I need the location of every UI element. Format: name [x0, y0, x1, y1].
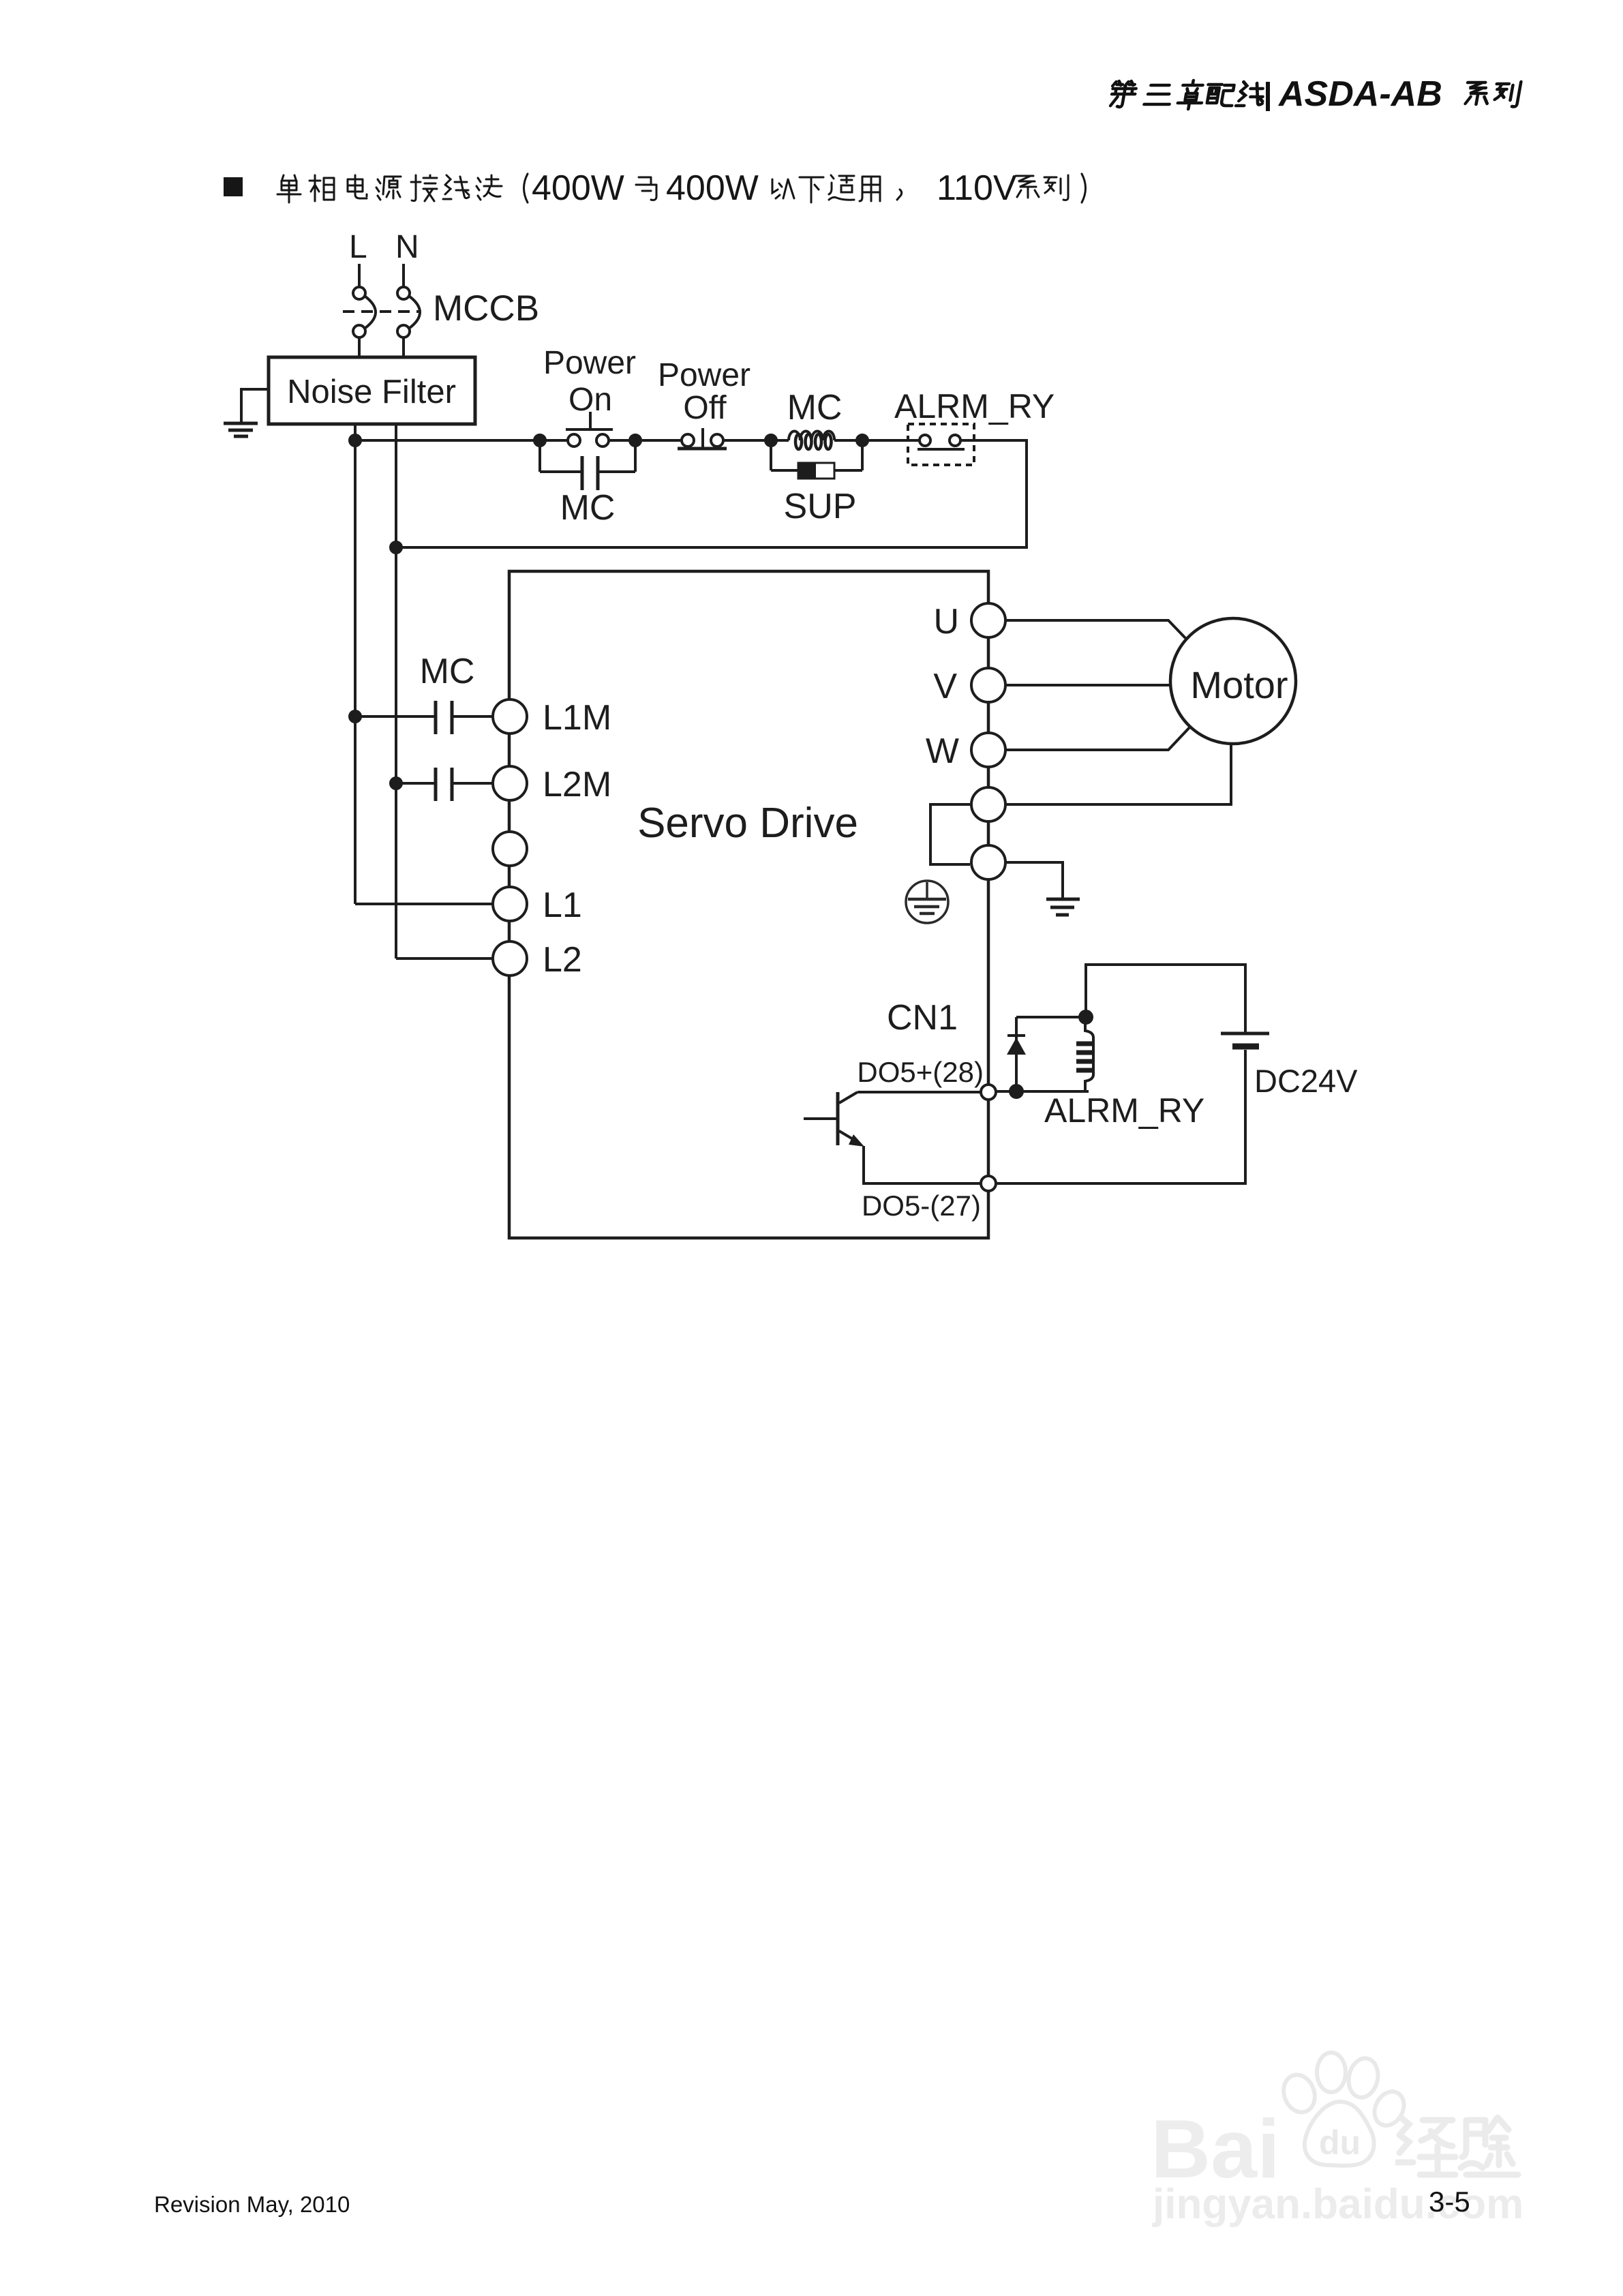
svg-text:DO5+(28): DO5+(28) [857, 1056, 984, 1088]
wire ALRM contact to right corner [396, 440, 1027, 547]
switch power on (NO pushbutton) [566, 412, 613, 447]
svg-text:Off: Off [683, 390, 727, 426]
svg-text:U: U [933, 602, 959, 641]
wire MC coil to ALRM contact [834, 439, 919, 442]
wire W to motor [1005, 725, 1192, 750]
battery DC24V [1221, 1033, 1269, 1046]
label SUP [784, 487, 857, 526]
wire bus1 to L1 [355, 903, 492, 905]
svg-text:400W: 400W [666, 168, 759, 208]
node N label [395, 229, 419, 265]
junction MC coil left [765, 435, 776, 446]
junction bus2 to L2M contact [391, 778, 401, 789]
wire relay top loop [1086, 965, 1245, 1032]
label L1M [543, 698, 611, 738]
svg-text:ALRM_RY: ALRM_RY [1044, 1091, 1204, 1130]
label W [926, 731, 959, 771]
svg-text:Servo Drive: Servo Drive [637, 800, 858, 847]
junction coil top [1080, 1011, 1092, 1023]
junction bus1-control wire [350, 435, 361, 446]
svg-text:L: L [349, 229, 367, 265]
terminal L2M [493, 766, 527, 800]
label ALRM_RY relay [1044, 1091, 1204, 1130]
junction diode bottom [1010, 1085, 1022, 1098]
diode D1 flyback [1007, 1017, 1026, 1091]
svg-text:MCCB: MCCB [433, 288, 539, 329]
footer page number [1429, 2186, 1470, 2218]
label U [933, 602, 959, 641]
label MC main contact [420, 652, 475, 691]
label Servo Drive [637, 800, 858, 847]
terminal unlabeled left [493, 832, 527, 866]
svg-text:Power: Power [658, 357, 750, 393]
svg-text:W: W [926, 731, 959, 771]
svg-text:L1M: L1M [543, 698, 611, 738]
breaker MCCB pole L [353, 287, 376, 337]
wire power-on to power-off [608, 439, 682, 442]
watermark baidu logo [1151, 2101, 1280, 2196]
svg-text:du: du [1319, 2124, 1361, 2162]
label Power Off [658, 357, 750, 426]
terminal V [971, 668, 1005, 702]
footer revision [154, 2192, 350, 2218]
bullet line heading [224, 168, 1086, 208]
relay coil ALRM_RY [1076, 1017, 1093, 1091]
terminal ground motor side [971, 845, 1005, 879]
svg-text:MC: MC [420, 652, 475, 691]
svg-text:ALRM_RY: ALRM_RY [894, 387, 1055, 425]
node L label [349, 229, 367, 265]
svg-text:Motor: Motor [1190, 663, 1288, 706]
wire ground terminal to earth [1005, 862, 1063, 898]
svg-text:SUP: SUP [784, 487, 857, 526]
svg-text:L2: L2 [543, 940, 582, 980]
terminal U [971, 603, 1005, 637]
terminal DO5+ [981, 1085, 996, 1100]
servo drive box [509, 571, 988, 1238]
wire control row left [355, 439, 568, 442]
wire diode top to coil top [1016, 1016, 1086, 1018]
protective earth symbol [906, 881, 948, 923]
label MC coil [787, 388, 843, 427]
junction bus1 to L1M contact [350, 711, 361, 722]
wire U to motor [1005, 620, 1185, 638]
wire motor ground [1005, 744, 1231, 804]
label DO5+(28) [857, 1056, 984, 1088]
terminal L2 [493, 941, 527, 976]
wire L input stub [358, 264, 361, 287]
svg-text:CN1: CN1 [887, 998, 958, 1038]
wire N input stub [402, 264, 405, 287]
junction power-on left [534, 435, 545, 446]
terminal L1M [493, 699, 527, 734]
wire V to motor [1005, 684, 1172, 686]
wire bus2 to L2 [396, 957, 492, 960]
svg-text:400W: 400W [532, 168, 624, 208]
svg-text:110V: 110V [937, 168, 1017, 208]
motor M1 [1170, 618, 1296, 744]
noise filter U1 box [269, 357, 475, 424]
wire battery to DO5- [996, 1050, 1245, 1183]
label Power On [543, 345, 636, 418]
transistor Q1 [804, 1092, 981, 1183]
label DC24V [1254, 1063, 1358, 1099]
header chapter title [1108, 74, 1521, 114]
junction return to bus2 [391, 542, 401, 553]
relay contact ALRM_RY dashed box [908, 424, 974, 465]
contact MC auxiliary branch [540, 440, 635, 490]
svg-text:Noise Filter: Noise Filter [287, 374, 456, 410]
wire noise filter to ground [241, 389, 269, 422]
terminal W [971, 733, 1005, 767]
contact MC main L2M [396, 768, 492, 801]
svg-text:ASDA-AB: ASDA-AB [1277, 74, 1442, 114]
svg-text:L2M: L2M [543, 765, 611, 804]
label MCCB [433, 288, 539, 329]
ground noise filter [224, 423, 258, 436]
junction MC coil right [857, 435, 868, 446]
label L2M [543, 765, 611, 804]
svg-text:Power: Power [543, 345, 636, 381]
svg-text:N: N [395, 229, 419, 265]
label CN1 [887, 998, 958, 1038]
wire L to noise filter [358, 337, 361, 359]
breaker MCCB linkage dashed [343, 310, 419, 313]
label V [933, 667, 957, 706]
terminal DO5- [981, 1176, 996, 1191]
wire power-off to MC coil [723, 439, 789, 442]
svg-text:DO5-(27): DO5-(27) [862, 1190, 981, 1222]
breaker MCCB pole N [397, 287, 420, 337]
svg-text:DC24V: DC24V [1254, 1063, 1358, 1099]
wire vertical bus 2 from noise filter [395, 424, 397, 958]
label DO5-(27) [862, 1190, 981, 1222]
junction power-on right [630, 435, 641, 446]
surge suppressor SUP branch [771, 440, 862, 479]
wire ground terminals bridge [930, 804, 970, 864]
svg-text:MC: MC [787, 388, 843, 427]
wire vertical bus 1 from noise filter [354, 424, 357, 904]
wire DO5+ to relay [996, 1090, 1089, 1093]
svg-text:MC: MC [560, 488, 616, 528]
terminal ground drive side [971, 787, 1005, 821]
label L2 [543, 940, 582, 980]
coil MC contactor [789, 431, 834, 449]
wire N to noise filter [402, 337, 405, 359]
svg-text:L1: L1 [543, 886, 582, 925]
svg-text:V: V [933, 667, 957, 706]
ground earth right [1046, 899, 1080, 915]
label ALRM_RY contact [894, 387, 1055, 425]
label L1 [543, 886, 582, 925]
contact MC main L1M [355, 701, 492, 734]
label MC auxiliary [560, 488, 616, 528]
terminal L1 [493, 887, 527, 921]
switch power off (NC pushbutton) [678, 428, 727, 449]
